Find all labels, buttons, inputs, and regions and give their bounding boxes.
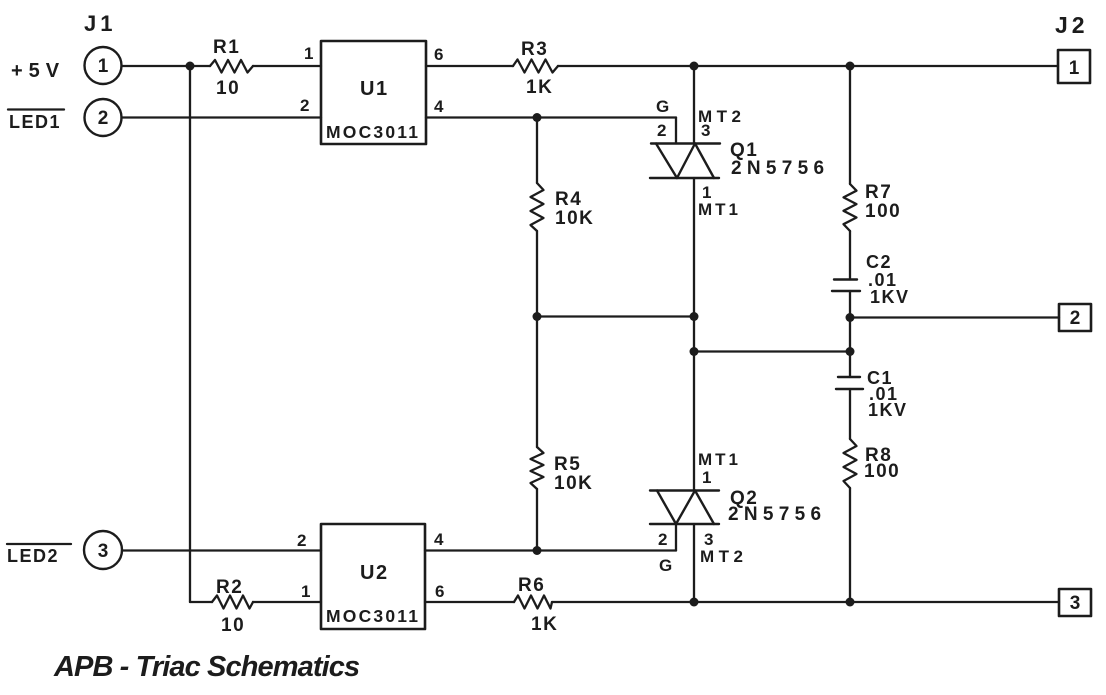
wire R4 to mid node <box>536 231 538 317</box>
wire node to node <box>693 317 695 352</box>
wire node to node rail <box>849 318 851 352</box>
junction bottom left <box>690 598 699 607</box>
svg-text:6: 6 <box>434 45 443 64</box>
wire R8 down to J2-3 wire <box>849 488 851 602</box>
wire Q1 gate drop <box>675 118 677 144</box>
svg-text:R5: R5 <box>554 454 581 475</box>
transistor Q2 <box>650 491 719 525</box>
svg-text:R3: R3 <box>521 39 548 60</box>
wire to J2-2 <box>850 316 1059 318</box>
wire rail to R1 <box>190 65 210 67</box>
resistor R3 <box>513 60 558 73</box>
svg-text:1K: 1K <box>526 77 553 98</box>
junction cap rail <box>846 347 855 356</box>
capacitor C2 <box>832 280 860 292</box>
svg-text:10K: 10K <box>554 473 593 494</box>
J1 pin 3 circle <box>84 531 122 569</box>
svg-text:2: 2 <box>98 108 109 129</box>
svg-text:2: 2 <box>300 96 309 115</box>
svg-text:C2: C2 <box>866 252 892 272</box>
wire node to C1 <box>849 352 851 378</box>
J2 pin 2 box <box>1059 304 1091 331</box>
wire U2 pin6 to R6 <box>425 601 514 603</box>
svg-text:10: 10 <box>221 615 245 636</box>
wire R5 to U2 pin4 wire <box>536 489 538 551</box>
svg-text:100: 100 <box>865 201 901 222</box>
wire LED1 J1-2 to U1 pin2 <box>122 116 322 118</box>
junction right rail top <box>846 62 855 71</box>
wire mid node to R5 <box>536 317 538 448</box>
svg-text:U1: U1 <box>360 78 389 100</box>
svg-text:1KV: 1KV <box>870 287 910 307</box>
svg-text:+5V: +5V <box>11 60 65 82</box>
junction bottom right <box>846 598 855 607</box>
svg-text:2: 2 <box>658 530 667 549</box>
svg-text:100: 100 <box>864 461 900 482</box>
svg-text:2: 2 <box>297 531 306 550</box>
svg-text:4: 4 <box>434 530 444 549</box>
wire C2 to node <box>849 291 851 318</box>
junction U2 pin4 tap <box>533 546 542 555</box>
resistor R7 <box>844 184 857 231</box>
resistor R2 <box>212 596 253 609</box>
wire R6 to node <box>552 601 694 603</box>
svg-text:R4: R4 <box>555 189 582 210</box>
junction R4 tap <box>533 113 542 122</box>
svg-text:U2: U2 <box>360 562 389 584</box>
wire LED2 J1-3 to U2 pin2 <box>122 549 321 551</box>
junction +5V node <box>186 62 195 71</box>
transistor Q1 <box>650 144 720 179</box>
svg-text:1K: 1K <box>531 614 558 635</box>
svg-text:1: 1 <box>301 582 310 601</box>
wire Q1 MT1 down <box>693 178 695 317</box>
wire R4 branch top <box>536 118 538 184</box>
resistor R1 <box>210 60 253 73</box>
svg-text:G: G <box>656 97 669 116</box>
junction at Q1 MT2 <box>690 62 699 71</box>
resistor R8 <box>844 439 857 488</box>
svg-text:R2: R2 <box>216 577 243 598</box>
wire node to right rail <box>694 65 850 67</box>
op-amp U2 <box>321 524 425 629</box>
net LED2 label <box>7 544 71 566</box>
net LED1 label <box>8 110 64 133</box>
svg-text:3: 3 <box>98 541 109 562</box>
resistor R4 <box>531 183 544 231</box>
wire +5V rail vertical <box>189 66 191 602</box>
J2 pin 3 box <box>1059 589 1091 616</box>
svg-text:1: 1 <box>1069 58 1080 79</box>
svg-text:G: G <box>659 556 672 575</box>
svg-text:3: 3 <box>701 121 710 140</box>
svg-text:1: 1 <box>98 56 109 77</box>
svg-text:LED1: LED1 <box>9 112 61 132</box>
wire Q1 MT2 vertical <box>693 66 695 144</box>
junction cross right <box>690 347 699 356</box>
wire U2 pin4 to gate <box>425 549 676 551</box>
svg-text:1KV: 1KV <box>868 400 908 420</box>
wire right rail to R7 <box>849 66 851 184</box>
svg-text:J1: J1 <box>84 11 116 36</box>
svg-text:MT2: MT2 <box>700 547 748 566</box>
svg-text:MOC3011: MOC3011 <box>326 606 420 626</box>
svg-text:R7: R7 <box>865 182 892 203</box>
wire to J2-1 <box>850 65 1058 67</box>
wire mid horizontal <box>537 315 694 317</box>
wire Q2 MT1 vertical <box>693 352 695 491</box>
svg-text:MT1: MT1 <box>698 450 741 469</box>
resistor R5 <box>531 447 544 489</box>
svg-text:LED2: LED2 <box>7 546 59 566</box>
svg-text:R6: R6 <box>518 575 545 596</box>
wire Q2 gate riser <box>675 524 677 551</box>
wire to J2-3 <box>850 601 1059 603</box>
wire R3 to node <box>558 65 694 67</box>
svg-text:2N5756: 2N5756 <box>728 504 826 525</box>
wire C1 to R8 <box>849 389 851 439</box>
svg-text:1: 1 <box>304 44 313 63</box>
svg-text:1: 1 <box>702 468 711 487</box>
wire node to rail <box>694 601 850 603</box>
svg-text:6: 6 <box>435 582 444 601</box>
svg-text:10K: 10K <box>555 208 594 229</box>
junction mid left <box>533 312 542 321</box>
svg-text:J2: J2 <box>1055 12 1089 38</box>
junction mid right <box>690 312 699 321</box>
J1 pin 1 circle <box>85 47 122 84</box>
wire U1 pin6 to R3 <box>426 65 513 67</box>
wire R2 to U2 pin1 <box>253 601 321 603</box>
svg-text:3: 3 <box>1070 593 1081 614</box>
svg-text:2: 2 <box>1070 308 1081 329</box>
wire R7 to C2 <box>849 231 851 280</box>
capacitor C1 <box>836 377 863 389</box>
svg-text:2N5756: 2N5756 <box>731 158 829 179</box>
J1 pin 2 circle <box>85 99 122 136</box>
resistor R6 <box>514 596 552 609</box>
wire U1 pin4 to Q1 gate <box>426 116 676 118</box>
wire J1-1 to +5V node <box>122 65 191 67</box>
wire R1 to U1 pin1 <box>253 65 321 67</box>
J2 pin 1 box <box>1058 50 1090 83</box>
svg-text:MOC3011: MOC3011 <box>326 122 420 142</box>
svg-text:2: 2 <box>657 121 666 140</box>
svg-text:MT1: MT1 <box>698 200 741 219</box>
wire rail to R2 <box>190 601 212 603</box>
svg-text:APB - Triac Schematics: APB - Triac Schematics <box>53 651 360 683</box>
svg-text:4: 4 <box>434 97 444 116</box>
wire cross to cap rail <box>694 350 850 352</box>
wire Q2 MT2 down <box>693 524 695 602</box>
svg-text:R1: R1 <box>213 37 240 58</box>
op-amp U1 <box>321 41 426 144</box>
svg-text:10: 10 <box>216 78 240 99</box>
junction J2-2 node <box>846 313 855 322</box>
